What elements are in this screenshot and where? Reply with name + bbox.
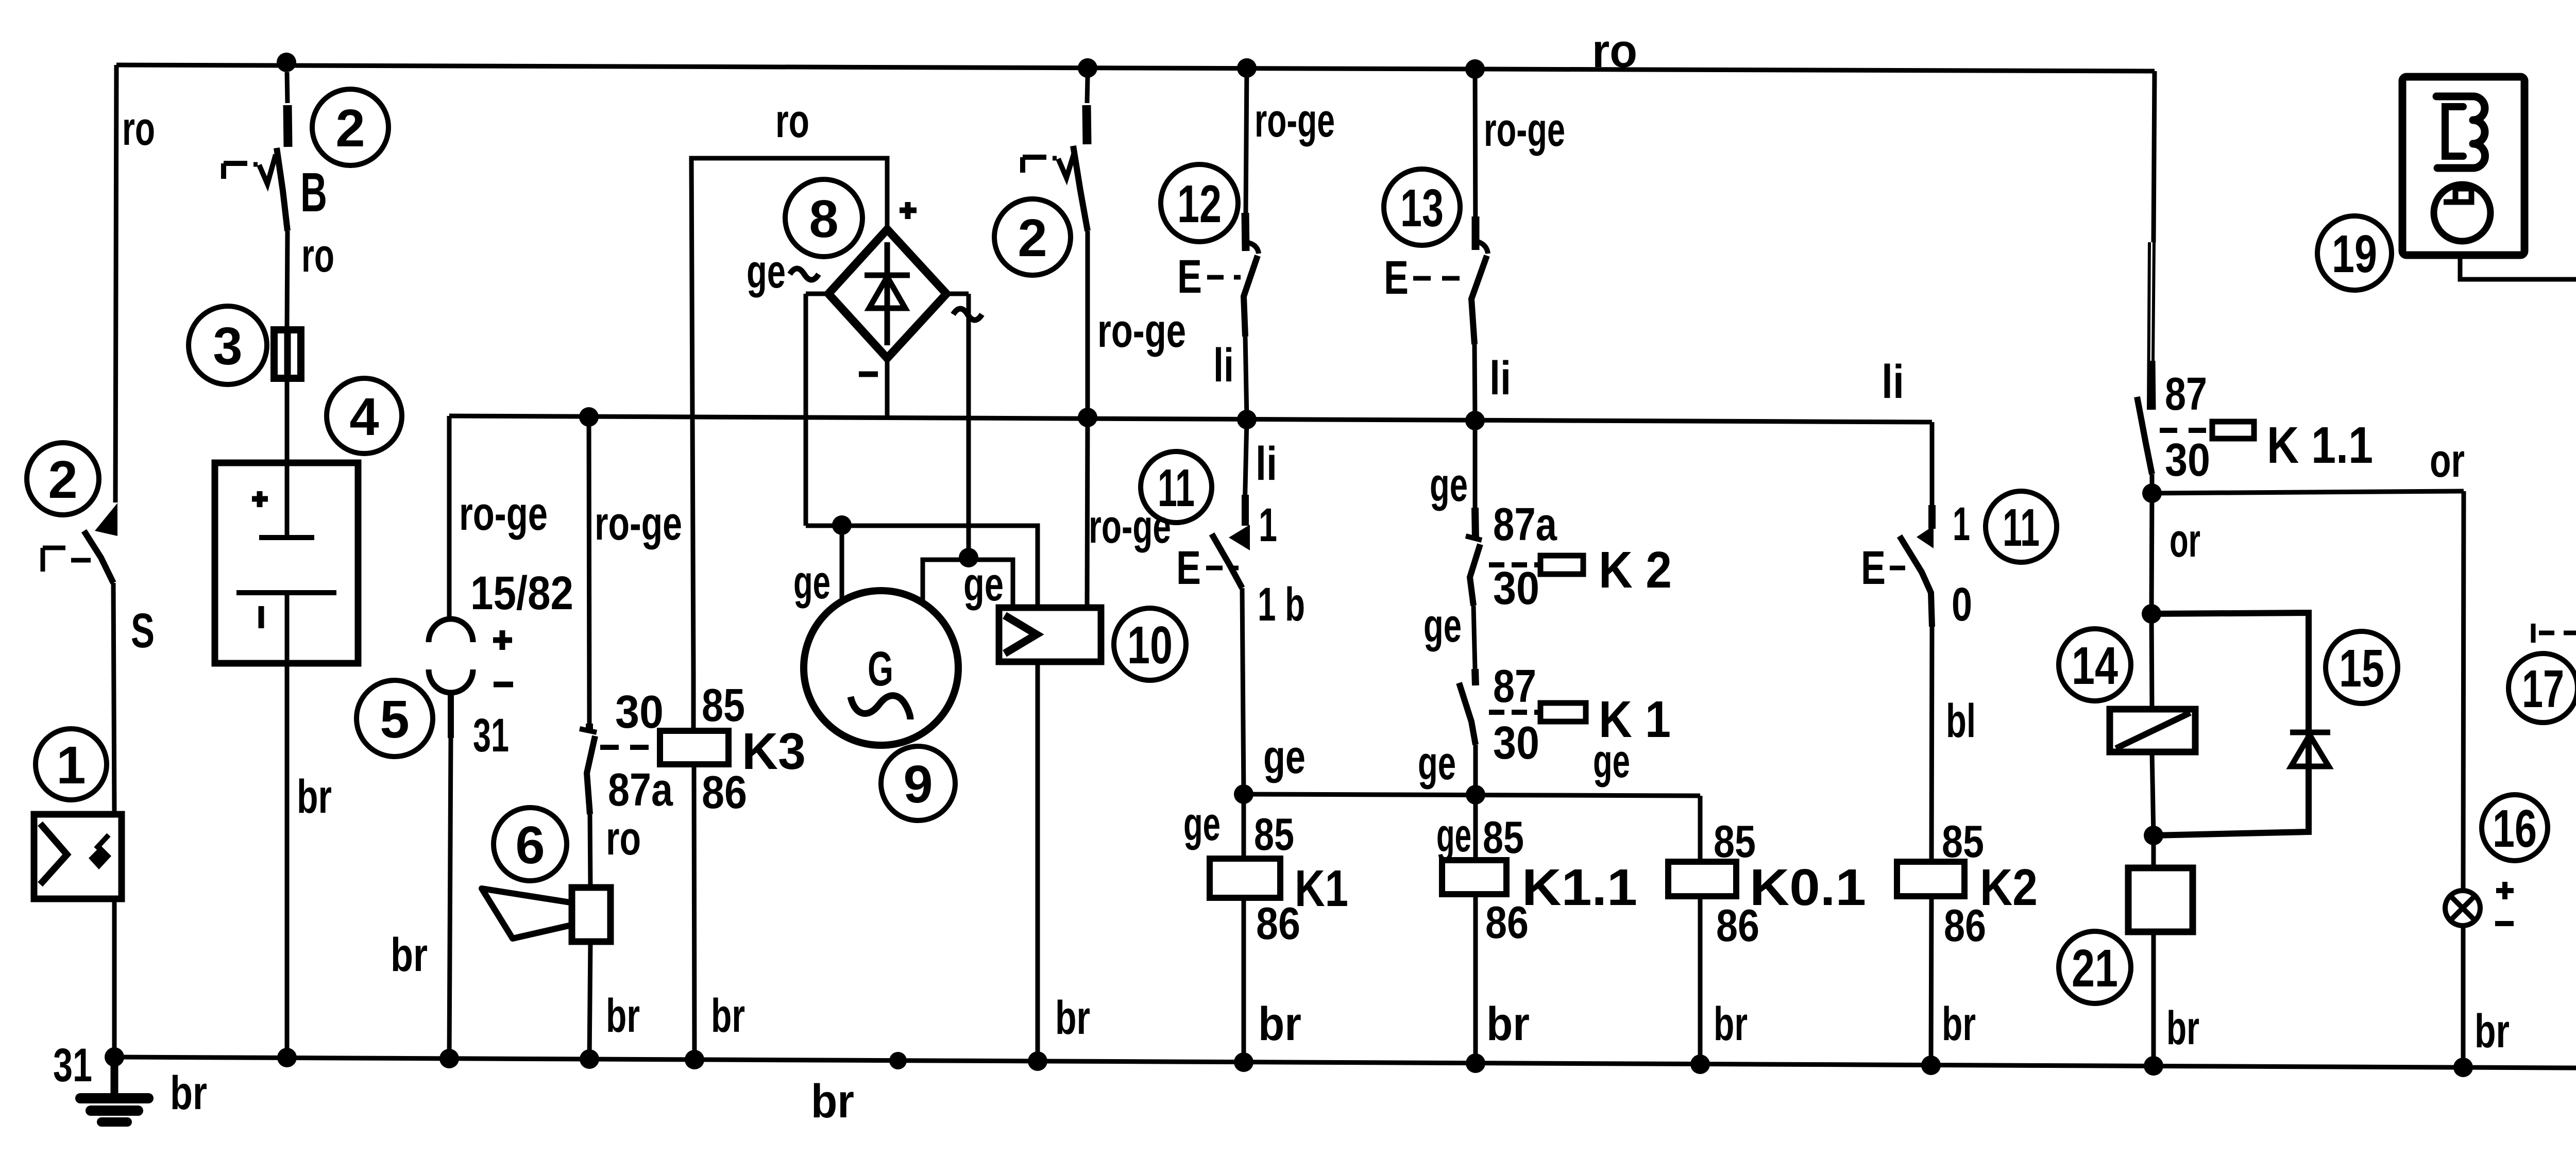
switch S (2) (43, 503, 117, 583)
svg-text:2: 2 (1018, 208, 1047, 267)
junction bus K3 (685, 1050, 704, 1069)
wire S to ignition coil (113, 583, 114, 814)
svg-text:85: 85 (702, 680, 745, 731)
label 85 K11 (1483, 812, 1524, 863)
label ro-ge switch2 mid (1097, 305, 1186, 357)
svg-text:K 2: K 2 (1599, 541, 1672, 599)
device 21 (2128, 835, 2193, 1066)
junction ge rectifier right (959, 548, 978, 567)
junction top bus switch 12 (1237, 58, 1257, 78)
wire ge rectifier ac-left down (806, 294, 828, 526)
label ro rectifier (775, 95, 809, 147)
svg-text:10: 10 (1127, 615, 1173, 675)
label minus lamp16 (2495, 921, 2514, 926)
circle 2 top (312, 89, 388, 165)
junction ge line K11 (1466, 785, 1485, 805)
label E switch11 right (1861, 542, 1912, 594)
wire ge K1 switch down (1473, 745, 1478, 795)
svg-text:br: br (606, 990, 640, 1042)
circle 4 (327, 378, 402, 454)
svg-text:ge: ge (1263, 731, 1306, 783)
svg-text:br: br (297, 770, 332, 823)
junction bus K1 (1234, 1052, 1253, 1072)
wire device 19 to bl (2460, 255, 2576, 403)
label 0 switch11 right (1952, 578, 1972, 631)
circle 12 (1161, 164, 1238, 242)
link box K11 switch (2212, 422, 2254, 439)
svg-text:S: S (131, 604, 155, 658)
label tilde left (790, 269, 819, 280)
junction top bus battery branch (277, 53, 296, 72)
circle 11 left (1141, 451, 1212, 523)
label 86 K01 (1716, 900, 1759, 951)
wire fuse to battery (285, 375, 290, 463)
svg-text:31: 31 (473, 709, 509, 762)
svg-text:ro: ro (606, 812, 641, 865)
label K3 (742, 723, 806, 780)
label br K11 (1486, 998, 1530, 1050)
label 85 K3 (702, 680, 745, 731)
label br K1 (1258, 998, 1301, 1050)
wire ro-ge to socket 5 (447, 416, 452, 616)
label 87a K2 switch (1493, 499, 1557, 550)
label br K2 (1942, 998, 1976, 1050)
junction mid line horn branch (579, 407, 599, 427)
wire ge line coils (1244, 794, 1700, 796)
wire rectifier minus to mid line (885, 358, 890, 418)
junction mid line switch2 (1078, 408, 1097, 427)
svg-text:br: br (2166, 1002, 2199, 1054)
label ge K11 coil (1436, 809, 1471, 862)
diode 15 loop (2151, 613, 2330, 835)
wire ge to generator (840, 525, 844, 601)
svg-text:87: 87 (2165, 368, 2207, 420)
svg-text:86: 86 (1256, 898, 1300, 949)
label br regulator (1055, 992, 1090, 1044)
junction bus K2 (1921, 1056, 1941, 1075)
svg-text:14: 14 (2072, 636, 2118, 695)
relay contact switch K1 87/30 (1459, 669, 1476, 745)
label 30 K3 switch (615, 686, 664, 738)
svg-text:K1.1: K1.1 (1522, 859, 1637, 916)
svg-text:4: 4 (349, 387, 379, 446)
svg-text:ge: ge (1423, 599, 1462, 652)
wire mid line ro-ge li (449, 416, 1932, 422)
label ge left of dot (1418, 737, 1456, 790)
svg-text:1: 1 (1259, 499, 1277, 551)
svg-text:11: 11 (2003, 498, 2040, 557)
svg-text:bl: bl (1946, 695, 1976, 747)
junction relay14 bottom (2144, 826, 2163, 845)
label K 1 (1599, 691, 1671, 748)
svg-text:ge: ge (1593, 735, 1630, 788)
link box K2 switch (1540, 556, 1583, 574)
relay coil K1.1 (1442, 795, 1506, 1063)
label E switch11 left (1176, 542, 1239, 594)
switch B (2) (224, 72, 288, 231)
wire ro B to fuse (287, 231, 287, 330)
svg-text:br: br (391, 929, 428, 981)
label ge switch11 left (1263, 731, 1306, 783)
svg-text:ro: ro (122, 103, 155, 155)
label minus lamp5 (494, 682, 513, 688)
junction bus K11 (1466, 1053, 1485, 1073)
label br device21 (2166, 1002, 2199, 1054)
label 30 K11 switch (2165, 434, 2210, 486)
svg-text:31: 31 (53, 1039, 92, 1092)
svg-text:21: 21 (2072, 939, 2118, 998)
junction mid line switch12 (1237, 410, 1257, 429)
label tilde right (953, 309, 982, 320)
svg-text:K3: K3 (742, 723, 806, 780)
wire ge K2 to K1 switch (1473, 606, 1475, 669)
svg-text:E: E (1176, 542, 1201, 594)
wire ro-ge to regulator 10 (1087, 417, 1088, 608)
label K1 (1295, 860, 1348, 917)
svg-text:ge: ge (1430, 459, 1468, 511)
label li switch12 (1213, 339, 1234, 392)
label 1 switch11 right (1953, 498, 1970, 550)
dashed link K2 switch (1489, 562, 1539, 567)
wire or to relay 14 (2151, 493, 2152, 614)
label K1.1 (1522, 859, 1637, 916)
circle 19 (2317, 216, 2392, 290)
wire or to junction (2150, 474, 2155, 493)
wire br lamp16 to bus (2461, 926, 2466, 1067)
svg-text:ro-ge: ro-ge (595, 497, 682, 550)
relay contact switch K2 87a/30 (1466, 421, 1482, 606)
junction bus lamp5 (439, 1049, 459, 1068)
label ge generator left (793, 556, 831, 609)
junction bus horn (580, 1049, 599, 1069)
ignition device 1 (34, 814, 122, 899)
svg-text:ro: ro (1592, 25, 1637, 77)
svg-text:br: br (1486, 998, 1530, 1050)
circle 1 (36, 729, 107, 800)
junction bus lamp16 (2453, 1058, 2473, 1077)
label K2 (1980, 859, 2038, 916)
junction ge line K1 (1234, 784, 1253, 804)
label plus lamp5 (493, 630, 512, 650)
label 15/82 (470, 567, 573, 619)
switch 12 (1244, 68, 1259, 337)
label 30 K1 switch (1493, 717, 1539, 769)
wire bl switch11 to K2 (1931, 627, 1932, 862)
svg-text:K1: K1 (1295, 860, 1348, 917)
label br K3 (711, 990, 745, 1042)
svg-text:ro-ge: ro-ge (1097, 305, 1186, 357)
label E switch12 (1177, 250, 1241, 303)
svg-text:8: 8 (809, 189, 838, 248)
relay contact switch K1.1 87/30 (2137, 71, 2155, 474)
circle 17 (2509, 654, 2576, 723)
wire to ground junction (112, 899, 117, 1057)
svg-text:br: br (2475, 1005, 2510, 1058)
junction mid line switch13 (1465, 411, 1485, 430)
svg-text:ge: ge (1183, 798, 1221, 850)
svg-text:ge: ge (747, 245, 786, 298)
circle 3 (189, 306, 267, 384)
svg-text:E: E (1861, 542, 1886, 594)
svg-text:K0.1: K0.1 (1750, 859, 1866, 916)
label E switch13 (1384, 252, 1466, 304)
label br horn (606, 990, 640, 1042)
label 86 K11 (1485, 897, 1529, 948)
relay contact switch 30/87a (580, 417, 597, 814)
junction top bus switch2 mid (1078, 58, 1097, 78)
junction ge generator (832, 515, 852, 535)
circle 11 right (1986, 491, 2057, 562)
svg-text:ro-ge: ro-ge (1484, 104, 1565, 156)
junction bus ground (105, 1047, 124, 1067)
svg-text:br: br (1714, 998, 1748, 1050)
label ge below switch13 (1430, 459, 1468, 511)
circle 6 (494, 808, 567, 881)
svg-text:9: 9 (903, 755, 933, 814)
svg-text:6: 6 (515, 815, 545, 875)
svg-text:17: 17 (2522, 659, 2564, 718)
label K0.1 (1750, 859, 1866, 916)
switch 2 middle (1023, 77, 1088, 231)
wire or line (2152, 491, 2464, 493)
dashed link K1 switch (1489, 710, 1539, 715)
label 86 K3 (702, 767, 747, 818)
svg-text:87a: 87a (1493, 499, 1557, 550)
label ro-ge switch13 (1484, 104, 1565, 156)
circle 16 (2482, 795, 2548, 861)
relay coil K0.1 (1668, 796, 1736, 1064)
svg-text:or: or (2430, 434, 2465, 487)
indicator lamp 16 (2445, 891, 2480, 926)
switch 11 right (1900, 422, 1934, 627)
label 85 K1 (1254, 809, 1294, 860)
generator G 9 (804, 591, 958, 745)
label ro left (122, 103, 155, 155)
svg-text:li: li (1882, 356, 1904, 408)
label 85 K01 (1714, 816, 1756, 867)
svg-text:br: br (1055, 992, 1090, 1044)
ground symbol (80, 1057, 148, 1122)
svg-text:br: br (170, 1067, 207, 1119)
svg-text:ro: ro (775, 95, 809, 147)
svg-text:li: li (1489, 352, 1511, 405)
horn 6 (482, 887, 611, 942)
junction bus regulator (1028, 1051, 1047, 1071)
svg-text:1: 1 (56, 735, 86, 795)
junction bus battery (277, 1048, 297, 1067)
label ge K1 coil (1183, 798, 1221, 850)
switch 13 (1471, 69, 1488, 344)
svg-text:87a: 87a (608, 764, 673, 816)
svg-text:br: br (811, 1075, 854, 1128)
wire ge second to generator and regulator (923, 560, 1013, 608)
label minus rectifier (859, 372, 878, 377)
label 87 K11 switch (2165, 368, 2207, 420)
label li switch11 left (1256, 438, 1277, 490)
circle 13 (1384, 169, 1460, 245)
label ro-ge horn branch (595, 497, 682, 550)
svg-text:ge: ge (1418, 737, 1456, 790)
circle 14 (2059, 629, 2131, 701)
wire li switch13 (1475, 344, 1475, 420)
label 87a K3 switch (608, 764, 673, 816)
wire ro left vertical (115, 65, 116, 502)
circle 2 middle (994, 199, 1071, 275)
label ge generator right (963, 558, 1004, 611)
wire ge line to regulator 10 (806, 526, 1038, 608)
relay coil 14 (2110, 614, 2195, 835)
svg-text:30: 30 (1493, 717, 1539, 769)
svg-text:86: 86 (1716, 900, 1759, 951)
label 1 switch11 left (1259, 499, 1277, 551)
junction or line (2142, 483, 2162, 503)
rectifier 8 (828, 229, 946, 358)
switch 17 (2533, 487, 2576, 698)
label br K01 (1714, 998, 1748, 1050)
fuse 3 (274, 328, 301, 380)
svg-text:2: 2 (335, 98, 365, 158)
switch 11 left (1212, 420, 1250, 588)
svg-text:or: or (2170, 514, 2200, 567)
circle 21 (2059, 931, 2131, 1003)
label 1b (1258, 578, 1305, 631)
svg-text:2: 2 (48, 450, 77, 509)
label 86 K1 (1256, 898, 1300, 949)
svg-text:K 1.1: K 1.1 (2267, 416, 2373, 474)
relay coil K2 (1897, 862, 1964, 1065)
label br lamp16 (2475, 1005, 2510, 1058)
junction bus device21 (2144, 1056, 2163, 1076)
label plus lamp16 (2496, 882, 2514, 899)
label 87 K1 switch (1493, 661, 1536, 712)
svg-text:16: 16 (2493, 799, 2537, 858)
label K 2 (1599, 541, 1672, 599)
wire ge switch11 to K1 (1242, 588, 1244, 794)
label li switch11 right (1882, 356, 1904, 408)
svg-text:ge: ge (1436, 809, 1471, 862)
svg-text:K2: K2 (1980, 859, 2038, 916)
label ge right of switch (1593, 735, 1630, 788)
svg-text:ro-ge: ro-ge (459, 488, 548, 540)
label br ground (170, 1067, 207, 1119)
label ro under B (301, 229, 334, 282)
svg-text:11: 11 (1158, 458, 1195, 517)
regulator 10 (999, 608, 1101, 662)
svg-text:30: 30 (615, 686, 664, 738)
wire ge rectifier ac-right down (946, 294, 969, 558)
wire ro rectifier loop (691, 158, 887, 674)
label bl switch11 (1946, 695, 1976, 747)
label 31 ground (53, 1039, 92, 1092)
svg-text:30: 30 (1493, 563, 1539, 614)
connector socket 5 (429, 619, 473, 738)
label ro-ge lamp5 (459, 488, 548, 540)
svg-text:3: 3 (213, 316, 242, 376)
wire li switch12 (1245, 337, 1247, 418)
svg-text:12: 12 (1177, 174, 1222, 233)
svg-text:86: 86 (1944, 900, 1986, 951)
link box K1 switch (1540, 703, 1586, 722)
label or relay14 (2170, 514, 2200, 567)
label br lamp5 (391, 929, 428, 981)
svg-text:li: li (1213, 339, 1234, 392)
svg-text:1 b: 1 b (1258, 578, 1305, 631)
circle 2 left (27, 443, 99, 515)
svg-text:86: 86 (702, 767, 747, 818)
junction bus spare (889, 1052, 907, 1069)
svg-text:ro: ro (301, 229, 334, 282)
wire ro to horn (590, 814, 590, 887)
junction relay14 top (2142, 604, 2161, 624)
label plus rectifier (900, 202, 917, 219)
battery 4 (215, 463, 358, 663)
flasher device 19 (2402, 77, 2524, 255)
label li switch13 (1489, 352, 1511, 405)
label ge rectifier left (747, 245, 786, 298)
svg-text:B: B (300, 161, 327, 223)
label 30 K2 switch (1493, 563, 1539, 614)
label K 1.1 (2267, 416, 2373, 474)
svg-text:30: 30 (2165, 434, 2210, 486)
label ro horn (606, 812, 641, 865)
svg-text:86: 86 (1485, 897, 1529, 948)
svg-text:E: E (1384, 252, 1409, 304)
label br battery (297, 770, 332, 823)
svg-text:0: 0 (1952, 578, 1972, 631)
circle 8 (785, 179, 862, 257)
svg-text:19: 19 (2332, 224, 2377, 283)
relay coil K3 (660, 674, 728, 1060)
label ro-ge switch12 (1255, 94, 1335, 147)
wire br regulator to bus (1036, 662, 1040, 1061)
label ge between switches (1423, 599, 1462, 652)
svg-text:ge: ge (963, 558, 1004, 611)
junction top bus switch13 (1465, 59, 1485, 79)
svg-text:ro-ge: ro-ge (1255, 94, 1335, 147)
label 31 lamp5 (473, 709, 509, 762)
label S (131, 604, 155, 658)
svg-text:5: 5 (380, 690, 409, 749)
svg-text:87: 87 (1493, 661, 1536, 712)
wire br horn to bus (589, 942, 590, 1059)
circle 5 (357, 680, 433, 757)
label B (300, 161, 327, 223)
svg-text:ge: ge (793, 556, 831, 609)
wire ro-ge switch2 mid (1086, 231, 1090, 416)
svg-text:E: E (1177, 250, 1202, 303)
svg-text:br: br (1942, 998, 1976, 1050)
wire br lamp5 to bus (449, 738, 451, 1059)
circle 10 (1114, 608, 1186, 680)
label br bottom bus (811, 1075, 854, 1128)
svg-text:br: br (711, 990, 745, 1042)
label ro-ge regulator (1089, 500, 1171, 553)
wire top bus ro (116, 65, 2155, 71)
svg-text:13: 13 (1400, 178, 1444, 238)
relay coil K1 (1210, 794, 1280, 1062)
svg-text:15/82: 15/82 (470, 567, 573, 619)
svg-text:1: 1 (1953, 498, 1970, 550)
svg-text:85: 85 (1254, 809, 1294, 860)
circle 9 (881, 746, 955, 820)
svg-text:li: li (1256, 438, 1277, 490)
dashed link K11 switch (2160, 428, 2207, 433)
dashed link K3 (600, 745, 654, 750)
wire or to lamp 16 (2463, 491, 2464, 891)
svg-text:br: br (1258, 998, 1301, 1050)
wire br battery to bus (285, 663, 290, 1058)
label ro top bus (1592, 25, 1637, 77)
